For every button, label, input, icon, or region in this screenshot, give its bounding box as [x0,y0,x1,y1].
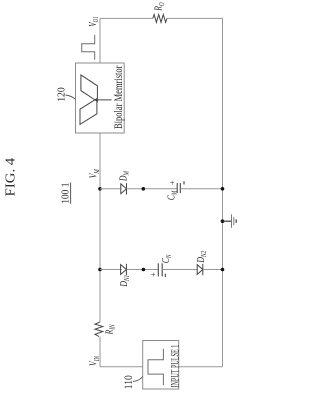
node junction dot between DN1 and CN [142,268,146,272]
svg-text:INPUT PULSE 1: INPUT PULSE 1 [167,345,181,388]
node junction dot branch2/bottom rail [221,187,225,191]
leader line for 120 [66,95,76,99]
wire main rail right segment (memristor box to right corner) [99,18,101,63]
svg-text:DN2: DN2 [196,250,209,263]
wire bottom rail [222,18,224,366]
svg-text:CN: CN [161,254,174,263]
svg-text:+: + [148,272,158,277]
wire main rail middle segment (RIN to memristor box) [99,133,101,322]
wire left leg lower (input box to bottom rail) [179,366,223,368]
node VM junction rail/branch DM (dot) [98,187,102,191]
node junction dot ground/bottom rail [221,219,225,223]
diode DM [121,183,127,194]
diode DN1 [121,264,127,275]
figure label 100_1 (underlined) [60,183,72,204]
capacitor CM [177,183,180,193]
wire main rail left segment (Vin corner to RIN) [99,337,101,367]
resistor RIN [95,322,103,337]
wire branch1 bottom (DN2 to bottom rail) [203,269,223,271]
wire right leg upper (rail corner to RO) [100,17,153,19]
svg-text:VIN: VIN [88,355,101,366]
svg-text:110: 110 [121,375,135,389]
svg-text:120: 120 [57,87,68,102]
svg-text:DM: DM [118,171,131,182]
memristor symbol stem [95,99,112,101]
svg-text:+: + [167,180,177,185]
svg-text:VO1: VO1 [87,16,101,26]
capacitor CN [158,263,162,276]
memristor symbol right flag [81,75,98,102]
CN minus sign [164,274,166,277]
node junction rail/branch DN (dot) [98,268,102,272]
wire branch2 (DM to CM) [127,188,178,190]
wire branch2 bottom (CM to bottom rail) [180,188,222,190]
svg-text:RO: RO [153,2,166,12]
svg-text:CM: CM [166,190,179,200]
input pulse source box 110 [143,341,179,390]
wire branch1 (DN1 to CN) [127,269,159,271]
CM minus sign [183,181,185,184]
diode DN2 [197,264,203,275]
node junction dot between DM and CM [142,187,146,191]
svg-text:VM: VM [88,169,101,179]
resistor RO [153,15,167,23]
memristor symbol left flag [80,99,97,125]
node junction dot branch1/bottom rail [221,268,225,272]
wire right leg lower (RO to bottom rail) [167,17,223,19]
svg-text:DN1: DN1 [119,275,132,288]
output pulse waveform at VO1 [82,35,95,60]
svg-text:Bipolar Memristor: Bipolar Memristor [111,65,125,129]
wire branch1 top (rail to DN1) [100,269,122,271]
svg-text:FIG. 4: FIG. 4 [3,158,18,197]
leader line for 110 [133,377,143,382]
input pulse waveform [148,349,163,386]
svg-text:100 1: 100 1 [60,183,72,204]
svg-text:RIN: RIN [104,324,117,335]
bipolar memristor box 120 [76,63,125,133]
wire left leg upper (rail down to input box) [100,366,143,368]
wire branch1 (CN to DN2) [162,269,197,271]
ground [223,214,237,227]
wire branch2 top (VM to DM) [100,188,121,190]
